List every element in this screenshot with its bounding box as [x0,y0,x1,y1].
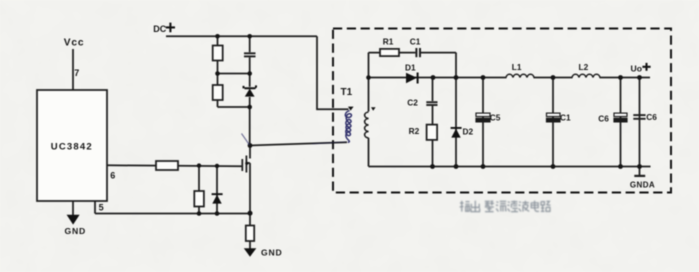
svg-text:Vcc: Vcc [64,37,85,48]
svg-text:7: 7 [74,68,79,78]
svg-text:GND: GND [65,226,87,236]
svg-text:GND: GND [261,247,283,257]
svg-text:5: 5 [99,202,104,212]
svg-text:L1: L1 [512,62,522,72]
svg-text:L2: L2 [579,62,589,72]
svg-text:DC: DC [153,24,166,34]
svg-text:C6: C6 [646,112,657,122]
svg-text:R2: R2 [409,126,420,136]
svg-text:C1: C1 [410,36,421,46]
svg-text:C6: C6 [598,113,609,123]
svg-text:GNDA: GNDA [630,181,655,190]
svg-text:T1: T1 [341,87,353,98]
svg-text:C5: C5 [490,112,501,122]
svg-text:D1: D1 [405,62,416,72]
svg-text:6: 6 [110,170,115,180]
svg-text:Uo: Uo [631,63,642,73]
svg-text:UC3842: UC3842 [51,141,93,152]
svg-text:R1: R1 [383,36,394,46]
svg-text:C2: C2 [407,98,418,108]
svg-text:D2: D2 [463,127,474,137]
svg-text:C1: C1 [560,112,571,122]
